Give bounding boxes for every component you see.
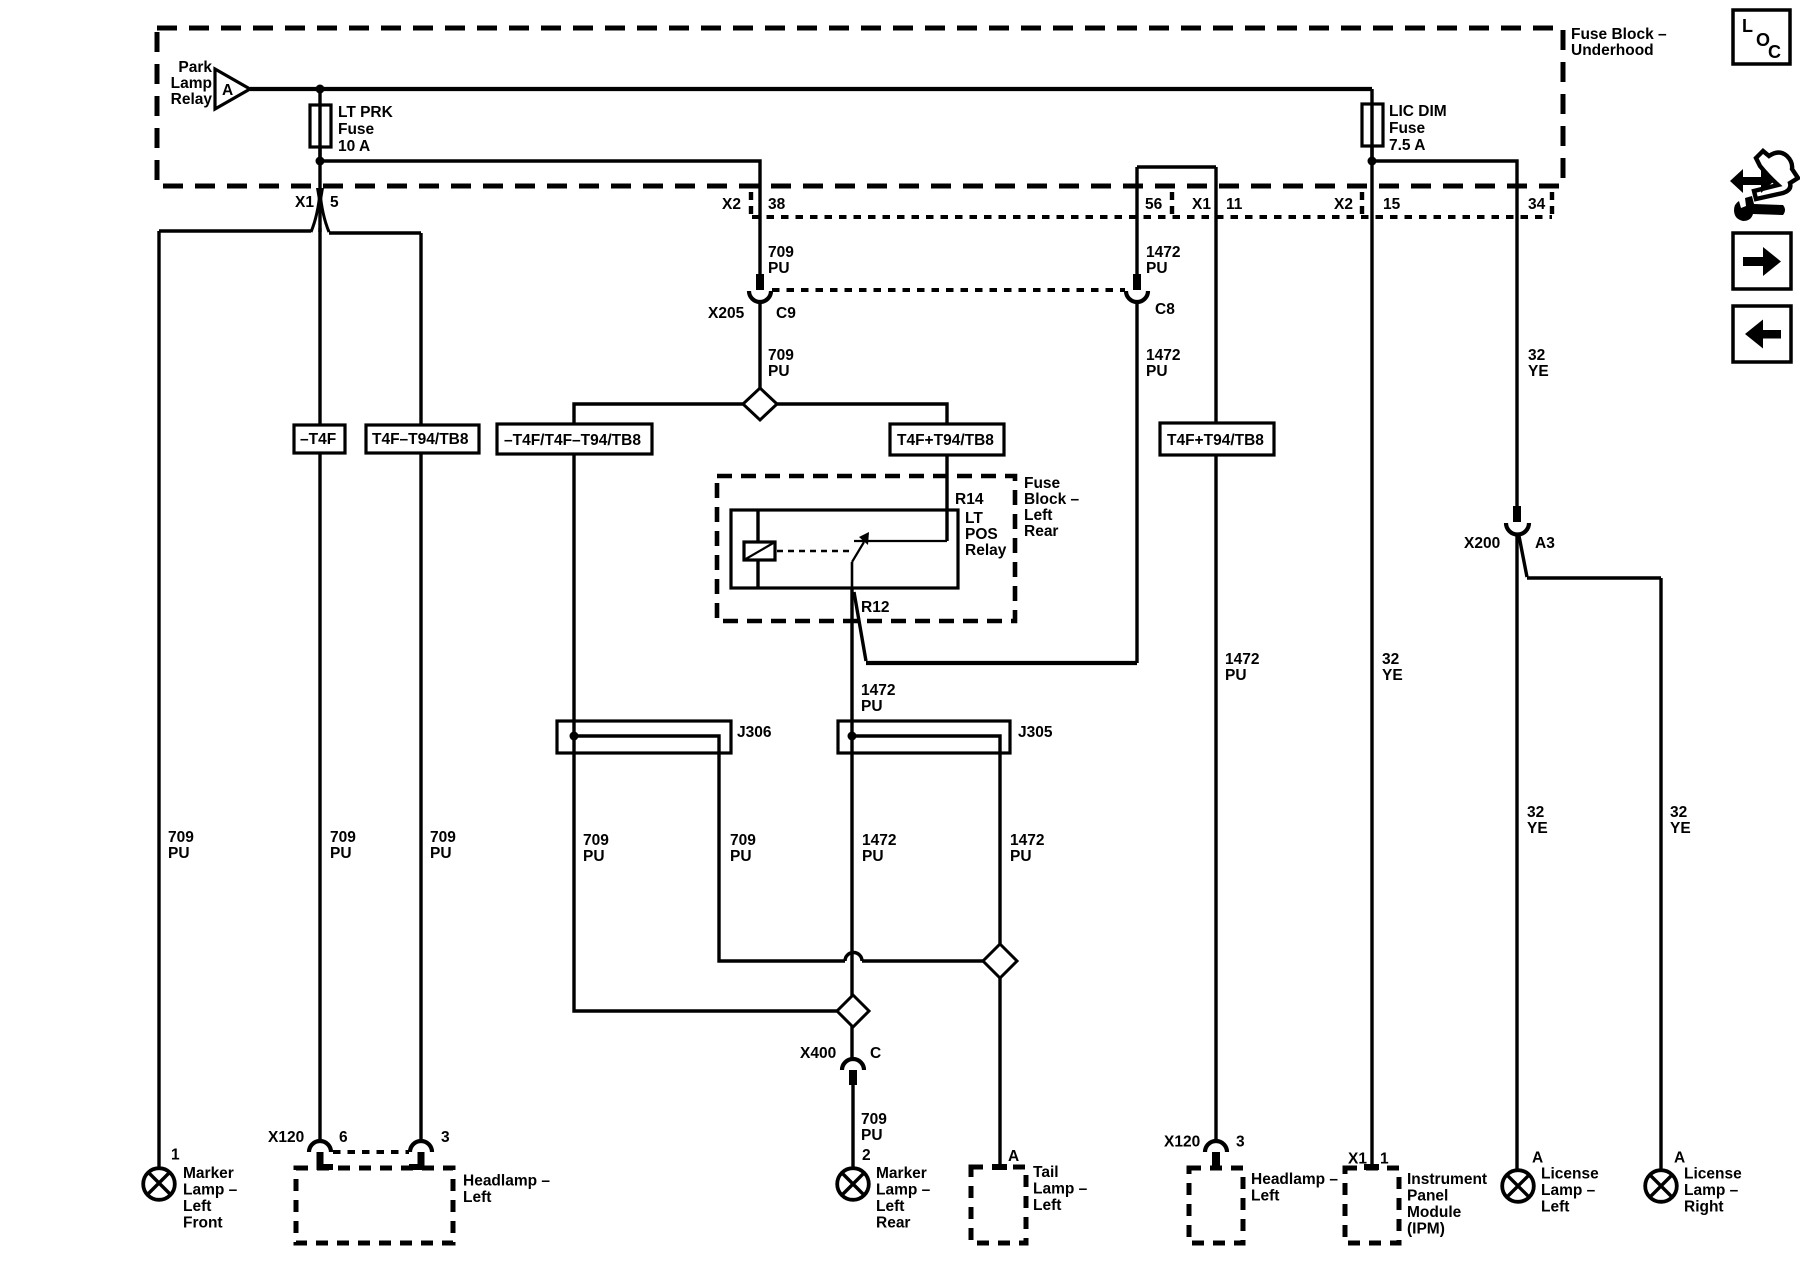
svg-text:X205: X205 bbox=[708, 305, 745, 322]
svg-text:Headlamp –: Headlamp – bbox=[463, 1173, 550, 1190]
svg-text:Block –: Block – bbox=[1024, 491, 1080, 508]
svg-text:J305: J305 bbox=[1018, 724, 1053, 741]
svg-text:11: 11 bbox=[1226, 196, 1243, 213]
svg-text:1: 1 bbox=[171, 1147, 180, 1164]
wire bridge 56 to 11 bbox=[1137, 165, 1216, 168]
svg-text:32: 32 bbox=[1528, 347, 1545, 364]
wire jog to license right bbox=[1519, 536, 1661, 1170]
svg-text:Left: Left bbox=[1033, 1197, 1061, 1214]
svg-text:Instrument: Instrument bbox=[1407, 1171, 1487, 1188]
svg-text:PU: PU bbox=[861, 1127, 883, 1144]
svg-text:YE: YE bbox=[1528, 363, 1549, 380]
splice J305 bar bbox=[838, 721, 1010, 753]
svg-text:C: C bbox=[1768, 42, 1781, 62]
svg-text:A: A bbox=[222, 82, 233, 99]
svg-text:L: L bbox=[1742, 16, 1753, 36]
svg-text:5: 5 bbox=[330, 194, 339, 211]
splice diamond S3 bbox=[983, 944, 1017, 978]
wire branch to pin 34 bbox=[1372, 161, 1517, 506]
wire X2 pin 15 drop to IPM bbox=[1370, 146, 1373, 1167]
svg-text:32: 32 bbox=[1670, 804, 1687, 821]
node junction at LT PRK fuse tap bbox=[316, 85, 325, 94]
service info icon bbox=[1730, 151, 1798, 221]
box T4F+T94/TB8 headlamp feed bbox=[1160, 423, 1274, 455]
svg-text:YE: YE bbox=[1382, 667, 1403, 684]
svg-text:Left: Left bbox=[1024, 507, 1052, 524]
svg-text:Rear: Rear bbox=[876, 1215, 910, 1232]
svg-text:2: 2 bbox=[862, 1147, 871, 1164]
wire splice branch left bbox=[574, 404, 838, 1011]
svg-text:X120: X120 bbox=[268, 1129, 304, 1146]
lamp marker left front bbox=[143, 1168, 175, 1200]
svg-text:YE: YE bbox=[1670, 820, 1691, 837]
svg-text:C9: C9 bbox=[776, 305, 796, 322]
svg-text:32: 32 bbox=[1382, 651, 1399, 668]
svg-text:Rear: Rear bbox=[1024, 523, 1058, 540]
svg-text:PU: PU bbox=[768, 260, 790, 277]
fuse block underhood dashed box bbox=[157, 28, 1563, 186]
svg-text:6: 6 bbox=[339, 1129, 348, 1146]
svg-text:Lamp –: Lamp – bbox=[1033, 1181, 1088, 1198]
connector X120 pin 3 headlamp terminal bbox=[1212, 1152, 1220, 1169]
connector X400 C socket bbox=[842, 1059, 864, 1070]
wire R12 to C8 link bbox=[854, 592, 866, 661]
svg-text:Marker: Marker bbox=[183, 1165, 234, 1182]
separator X2|38 bbox=[749, 192, 753, 215]
svg-text:A3: A3 bbox=[1535, 535, 1555, 552]
svg-text:–T4F/T4F–T94/TB8: –T4F/T4F–T94/TB8 bbox=[504, 432, 641, 449]
tail lamp dashed box bbox=[971, 1167, 1026, 1243]
svg-text:X1: X1 bbox=[1192, 196, 1211, 213]
svg-text:Headlamp –: Headlamp – bbox=[1251, 1171, 1338, 1188]
svg-text:A: A bbox=[1674, 1150, 1685, 1167]
connector X120 pin 6 terminal bbox=[317, 1152, 334, 1170]
box T4F-T94/TB8 bbox=[366, 425, 479, 453]
connector X200 A3 pin bbox=[1513, 506, 1521, 522]
svg-text:10 A: 10 A bbox=[338, 138, 370, 155]
wire 709 PU to splice diamond bbox=[758, 302, 761, 390]
svg-text:56: 56 bbox=[1145, 196, 1163, 213]
lamp license left bbox=[1502, 1170, 1534, 1202]
svg-text:(IPM): (IPM) bbox=[1407, 1221, 1445, 1238]
svg-text:J306: J306 bbox=[737, 724, 772, 741]
svg-text:Tail: Tail bbox=[1033, 1164, 1059, 1181]
svg-text:709: 709 bbox=[768, 347, 794, 364]
svg-text:PU: PU bbox=[430, 845, 452, 862]
svg-text:Lamp –: Lamp – bbox=[183, 1182, 238, 1199]
svg-text:1472: 1472 bbox=[1146, 347, 1180, 364]
connector X120 pin 3 socket bbox=[410, 1141, 432, 1152]
wire 1472 from 56 pin bbox=[1135, 167, 1138, 663]
svg-text:PU: PU bbox=[330, 845, 352, 862]
svg-text:709: 709 bbox=[583, 832, 609, 849]
relay switch pivot bbox=[851, 562, 854, 588]
svg-text:R14: R14 bbox=[955, 491, 984, 508]
connector X120 pin 3 headlamp socket bbox=[1205, 1141, 1227, 1152]
lamp marker left rear bbox=[837, 1168, 869, 1200]
svg-text:Panel: Panel bbox=[1407, 1188, 1448, 1205]
tail lamp pin tick bbox=[992, 1164, 1007, 1170]
svg-text:Right: Right bbox=[1684, 1199, 1724, 1216]
svg-text:YE: YE bbox=[1527, 820, 1548, 837]
svg-text:PU: PU bbox=[583, 848, 605, 865]
splice J306 inner wire bbox=[574, 736, 984, 961]
svg-text:Relay: Relay bbox=[965, 542, 1007, 559]
relay coil divider bbox=[756, 510, 759, 588]
connector X400 C pin bbox=[849, 1070, 857, 1085]
svg-text:PU: PU bbox=[862, 848, 884, 865]
svg-text:32: 32 bbox=[1527, 804, 1544, 821]
svg-text:T4F+T94/TB8: T4F+T94/TB8 bbox=[897, 432, 994, 449]
LOC icon box bbox=[1733, 10, 1790, 64]
svg-text:1472: 1472 bbox=[1225, 651, 1259, 668]
wire X1 pin 5 drop bbox=[318, 147, 321, 232]
svg-text:License: License bbox=[1684, 1166, 1742, 1183]
svg-text:PU: PU bbox=[168, 845, 190, 862]
node junction below LIC DIM fuse bbox=[1368, 157, 1377, 166]
connector C8 socket bbox=[1126, 291, 1148, 302]
svg-text:Lamp –: Lamp – bbox=[1684, 1182, 1739, 1199]
wire fuse drop bbox=[318, 89, 321, 162]
separator X2|15 bbox=[1360, 192, 1364, 215]
svg-text:Marker: Marker bbox=[876, 1165, 927, 1182]
wire license left drop bbox=[1515, 535, 1518, 1170]
svg-text:34: 34 bbox=[1528, 196, 1546, 213]
svg-text:Left: Left bbox=[1541, 1199, 1569, 1216]
svg-text:POS: POS bbox=[965, 526, 998, 543]
svg-text:PU: PU bbox=[861, 698, 883, 715]
svg-text:1472: 1472 bbox=[862, 832, 896, 849]
svg-text:PU: PU bbox=[1010, 848, 1032, 865]
wire marker rear drop bbox=[851, 1085, 854, 1169]
svg-text:PU: PU bbox=[1146, 363, 1168, 380]
splice diamond S2 bbox=[837, 995, 869, 1027]
dotted line C9 to C8 bbox=[772, 288, 1125, 292]
svg-text:Fuse: Fuse bbox=[1024, 475, 1061, 492]
connector C9 socket X205 bbox=[749, 291, 771, 302]
svg-text:Lamp: Lamp bbox=[171, 75, 212, 92]
svg-text:709: 709 bbox=[430, 829, 456, 846]
svg-text:X120: X120 bbox=[1164, 1134, 1200, 1151]
wire branch to X2 pin 38 bbox=[320, 161, 760, 274]
svg-text:709: 709 bbox=[168, 829, 194, 846]
park lamp relay triangle bbox=[215, 69, 250, 109]
svg-text:PU: PU bbox=[1225, 667, 1247, 684]
svg-text:X2: X2 bbox=[722, 196, 741, 213]
svg-text:A: A bbox=[1532, 1150, 1543, 1167]
relay coil element bbox=[744, 542, 775, 560]
connector C9 pin bbox=[756, 274, 764, 290]
svg-text:Park: Park bbox=[178, 59, 212, 76]
wire R12 drop bbox=[850, 588, 853, 1059]
headlamp left 2 dashed box bbox=[1189, 1168, 1243, 1243]
svg-text:1: 1 bbox=[1380, 1151, 1389, 1168]
svg-text:Underhood: Underhood bbox=[1571, 42, 1654, 59]
box -T4F bbox=[294, 425, 345, 453]
svg-text:709: 709 bbox=[330, 829, 356, 846]
svg-text:PU: PU bbox=[768, 363, 790, 380]
relay switch blade bbox=[852, 542, 864, 562]
wire T4F-T94 drop bbox=[419, 233, 422, 1141]
svg-text:T4F–T94/TB8: T4F–T94/TB8 bbox=[372, 431, 469, 448]
relay R14 body bbox=[731, 510, 958, 588]
hop over wire bbox=[845, 953, 862, 962]
connector X200 A3 socket bbox=[1506, 523, 1529, 535]
svg-text:X2: X2 bbox=[1334, 196, 1353, 213]
svg-text:1472: 1472 bbox=[861, 682, 895, 699]
svg-text:X1: X1 bbox=[1348, 1151, 1367, 1168]
IPM dashed box bbox=[1345, 1168, 1399, 1243]
svg-text:T4F+T94/TB8: T4F+T94/TB8 bbox=[1167, 432, 1264, 449]
fuse LIC DIM 7.5A bbox=[1362, 104, 1383, 146]
wire splice bar left bbox=[159, 229, 311, 232]
svg-text:Relay: Relay bbox=[171, 91, 213, 108]
connector C8 pin bbox=[1133, 274, 1141, 290]
wire splice branch right bbox=[777, 404, 947, 541]
fuse LT PRK 10A bbox=[310, 105, 331, 147]
box T4F+T94/TB8 relay feed bbox=[890, 424, 1004, 455]
svg-text:1472: 1472 bbox=[1010, 832, 1044, 849]
svg-text:709: 709 bbox=[768, 244, 794, 261]
svg-text:LT: LT bbox=[965, 510, 983, 527]
IPM pin tick bbox=[1364, 1164, 1379, 1170]
svg-text:3: 3 bbox=[441, 1129, 450, 1146]
separator 56|X1 bbox=[1170, 192, 1174, 215]
wire park lamp relay feed bbox=[250, 87, 1372, 91]
relay switch contact line bbox=[854, 540, 947, 542]
svg-text:A: A bbox=[1008, 1148, 1019, 1165]
svg-text:Module: Module bbox=[1407, 1204, 1462, 1221]
connector face dotted line X2/X1 bbox=[752, 215, 1552, 219]
svg-text:Lamp –: Lamp – bbox=[876, 1182, 931, 1199]
headlamp left dashed box bbox=[296, 1168, 453, 1243]
dotted connector face X120 bbox=[333, 1150, 409, 1154]
svg-text:3: 3 bbox=[1236, 1134, 1245, 1151]
svg-text:X200: X200 bbox=[1464, 535, 1500, 552]
fuse block left rear dashed box bbox=[717, 476, 1015, 621]
svg-text:709: 709 bbox=[730, 832, 756, 849]
svg-text:Front: Front bbox=[183, 1215, 223, 1232]
svg-text:Fuse: Fuse bbox=[1389, 120, 1426, 137]
svg-text:Left: Left bbox=[876, 1198, 904, 1215]
svg-text:Left: Left bbox=[463, 1189, 491, 1206]
svg-text:Left: Left bbox=[183, 1198, 211, 1215]
svg-text:–T4F: –T4F bbox=[300, 431, 336, 448]
svg-text:15: 15 bbox=[1383, 196, 1401, 213]
svg-text:LT PRK: LT PRK bbox=[338, 104, 394, 121]
svg-text:7.5 A: 7.5 A bbox=[1389, 137, 1425, 154]
splice fan-out at X1 pin 5 bbox=[311, 192, 329, 232]
connector X120 pin 6 socket bbox=[309, 1141, 331, 1152]
svg-text:X1: X1 bbox=[295, 194, 314, 211]
svg-text:C8: C8 bbox=[1155, 301, 1175, 318]
svg-text:38: 38 bbox=[768, 196, 786, 213]
svg-text:C: C bbox=[870, 1045, 881, 1062]
separator right of 34 bbox=[1550, 192, 1554, 215]
arrow left icon bbox=[1733, 306, 1791, 362]
splice J306 bar bbox=[557, 721, 731, 753]
connector X120 pin 3 terminal bbox=[409, 1152, 425, 1170]
svg-text:X400: X400 bbox=[800, 1045, 836, 1062]
wire -T4F drop bbox=[318, 228, 321, 1141]
lamp license right bbox=[1645, 1170, 1677, 1202]
wire 11 drop to headlamp bbox=[1214, 167, 1217, 1141]
svg-text:PU: PU bbox=[1146, 260, 1168, 277]
box -T4F/T4F-T94/TB8 bbox=[497, 424, 652, 454]
svg-text:Fuse Block –: Fuse Block – bbox=[1571, 26, 1667, 43]
wire tail lamp drop bbox=[998, 978, 1001, 1167]
arrow right icon bbox=[1733, 233, 1791, 289]
svg-text:License: License bbox=[1541, 1166, 1599, 1183]
svg-text:PU: PU bbox=[730, 848, 752, 865]
svg-text:R12: R12 bbox=[861, 599, 889, 616]
wire splice bar right bbox=[329, 231, 421, 234]
fuse LIC DIM drop bbox=[1370, 89, 1373, 162]
splice J305 inner wire bbox=[852, 736, 1000, 944]
svg-text:Left: Left bbox=[1251, 1188, 1279, 1205]
svg-text:709: 709 bbox=[861, 1111, 887, 1128]
svg-text:1472: 1472 bbox=[1146, 244, 1180, 261]
wire marker front drop bbox=[157, 231, 160, 1167]
svg-text:Lamp –: Lamp – bbox=[1541, 1182, 1596, 1199]
svg-text:LIC DIM: LIC DIM bbox=[1389, 103, 1447, 120]
svg-text:Fuse: Fuse bbox=[338, 121, 375, 138]
relay actuator dashed link bbox=[777, 550, 851, 552]
splice diamond S1 bbox=[743, 388, 777, 420]
node junction below fuse bbox=[316, 157, 325, 166]
